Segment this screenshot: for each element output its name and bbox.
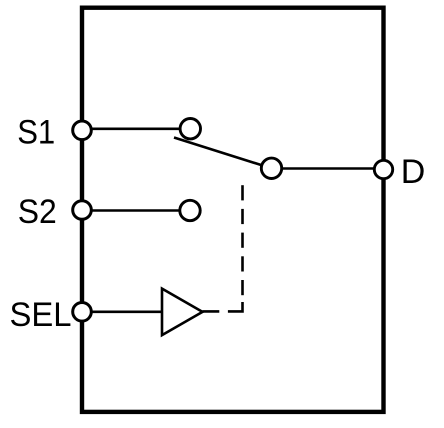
svg-text:D: D xyxy=(401,153,426,191)
dashed control line dash 5 xyxy=(241,209,244,224)
dashed control line dash 3 xyxy=(241,256,244,271)
dashed control line dash 4 xyxy=(241,233,244,248)
wire S2 to contact xyxy=(82,209,190,212)
dashed control line dash 2 xyxy=(241,280,244,295)
terminal S2 circle xyxy=(73,201,92,220)
wire pole to D xyxy=(272,167,384,170)
svg-text:S2: S2 xyxy=(18,193,57,231)
svg-text:SEL: SEL xyxy=(10,296,72,334)
svg-text:S1: S1 xyxy=(17,113,55,151)
terminal SEL circle xyxy=(73,303,92,322)
terminal S1 circle xyxy=(73,121,92,140)
terminal D circle xyxy=(374,160,392,178)
wire SEL to buffer input xyxy=(82,310,163,313)
buffer amplifier xyxy=(162,289,203,336)
dashed control line corner xyxy=(228,302,243,311)
IC body outline xyxy=(82,8,384,412)
wire buffer output xyxy=(203,310,220,313)
contact S2 circle xyxy=(180,200,200,220)
dashed control line dash 6 xyxy=(241,185,244,200)
pole circle xyxy=(261,158,281,178)
switch arm xyxy=(174,138,272,169)
contact S1 circle xyxy=(180,119,200,139)
wire S1 to contact xyxy=(82,128,190,131)
